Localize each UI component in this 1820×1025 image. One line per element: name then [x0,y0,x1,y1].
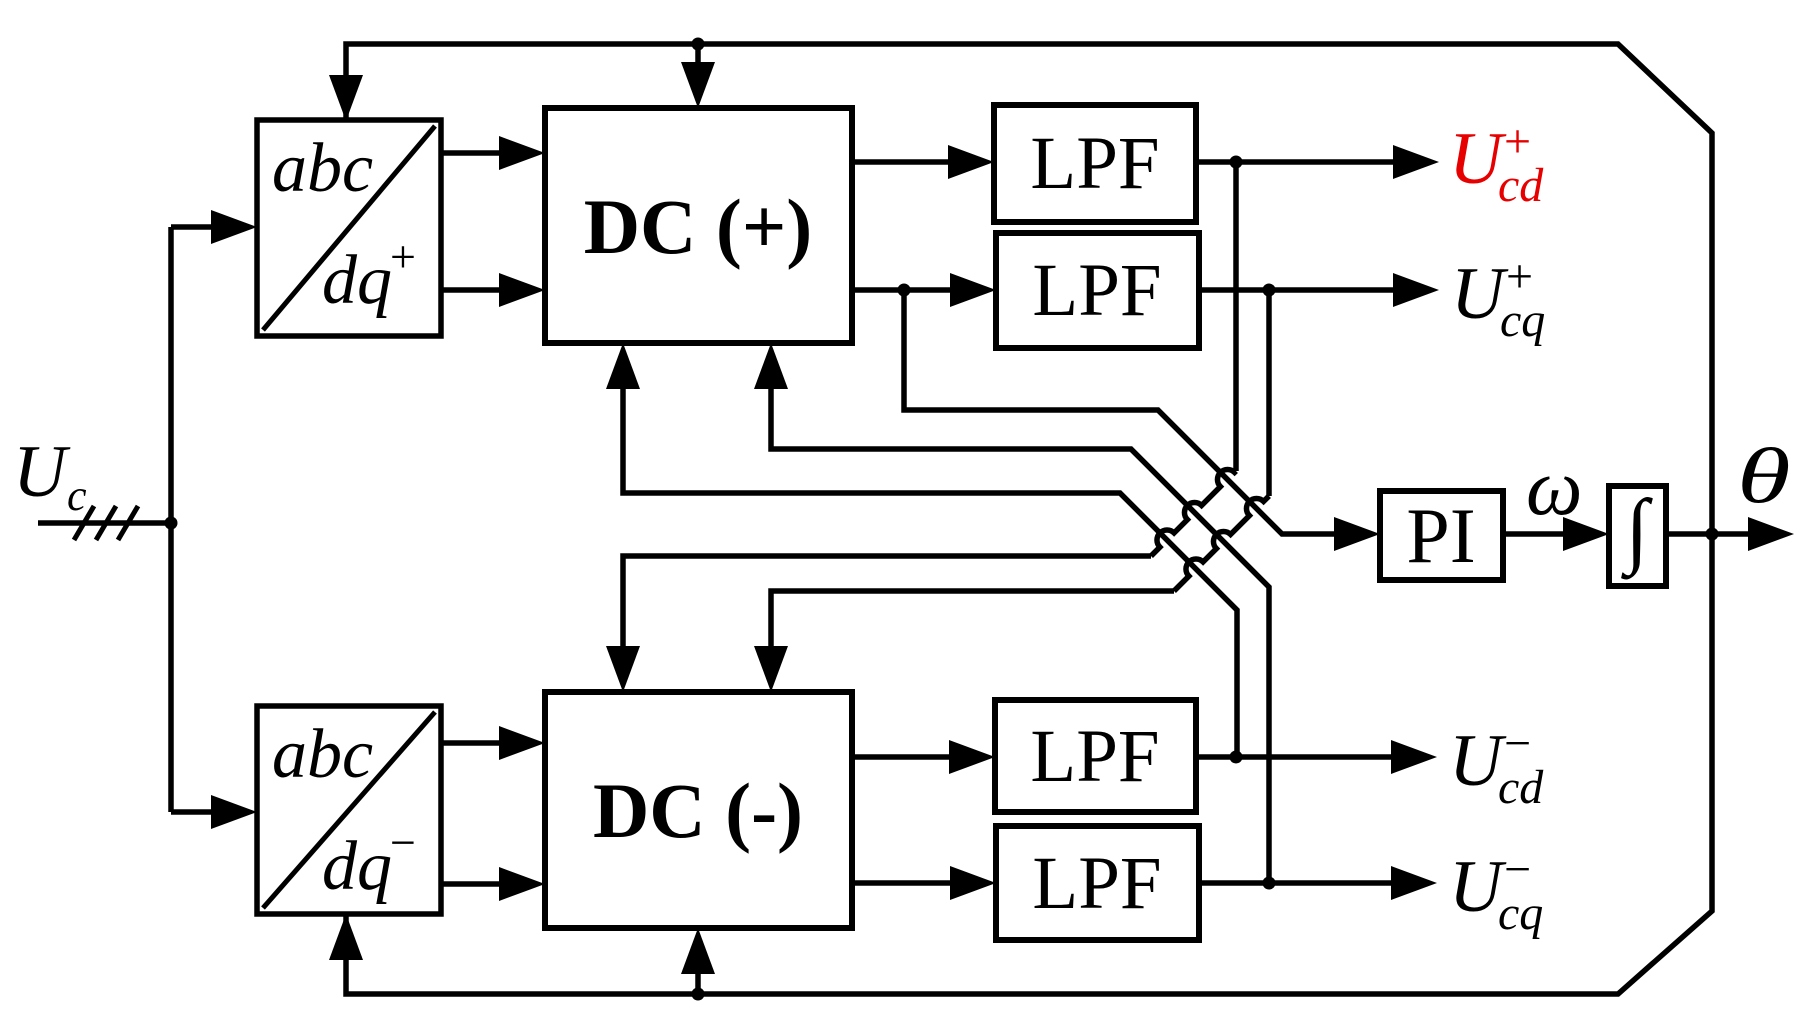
wire LPF to U+cq output [1199,273,1439,307]
wire branch up into DC(-) bottom [681,928,715,994]
wire integrator output theta [1666,517,1794,551]
svg-text:cq: cq [1500,294,1545,347]
wire DC(+) d output to LPF [852,145,994,179]
wire Uc to abc/dq- input [171,795,257,829]
label U-cd output [1449,717,1544,814]
wire abc/dq+ q output to DC(+) [441,273,545,307]
wire abc/dq- d output to DC(-) [441,726,545,760]
svg-text:PI: PI [1406,492,1475,579]
label LPF bottom-d [1030,715,1159,798]
label dq- in abc/dq- [322,817,416,905]
wire Uc to abc/dq+ input [171,210,257,244]
wire LPF to U-cq output [1199,866,1437,900]
wire filtered u-d feedback to DC(+) (via crossing) [606,343,1237,757]
label U-cq output [1449,843,1543,940]
wire LPF to U+cd output [1196,145,1439,179]
wire Uc vertical bus [168,227,174,812]
svg-text:abc: abc [272,130,373,207]
svg-text:DC (-): DC (-) [593,767,803,854]
node Uc input line with three-phase slashes [38,520,171,526]
label DC (+) [584,183,813,270]
label Uc input [13,431,87,520]
block LPF bottom-q [996,826,1199,940]
svg-text:U: U [13,431,71,513]
svg-text:+: + [390,231,416,282]
three-phase slash 3 [118,506,138,540]
three-phase slash 2 [96,506,116,540]
wire branch down into DC(+) top [681,44,715,108]
label PI [1406,492,1475,579]
wire DC(+) q output to LPF [852,273,996,307]
block LPF top-d [994,105,1196,222]
wire theta feedback top: from output junction up and across to abc/dq+ and DC(+) [329,44,1712,531]
block abc/dq+ transform [257,120,441,336]
wire LPF to U-cd output [1196,740,1437,774]
block abc/dq- transform [257,706,441,914]
svg-text:LPF: LPF [1032,249,1161,332]
label integral sign [1620,483,1653,580]
wire u+q raw tap to PI (via crossing) [904,290,1380,551]
node junction on U-cq line [1263,877,1276,890]
node junction on U-cd line [1230,751,1243,764]
block PI regulator [1380,491,1503,580]
wire filtered u-q feedback to DC(+) (via crossing) [754,343,1269,883]
block integrator [1609,486,1666,586]
node junction on U+cq line [1263,284,1276,297]
svg-text:LPF: LPF [1030,122,1159,205]
svg-text:cq: cq [1498,887,1543,940]
node junction on top feedback line above DC(+) [692,38,705,51]
svg-text:cd: cd [1498,761,1544,814]
svg-text:−: − [390,817,416,868]
svg-text:LPF: LPF [1032,842,1161,925]
label dq+ in abc/dq+ [322,231,416,319]
label LPF top-d [1030,122,1159,205]
label abc in abc/dq- [272,716,373,793]
svg-text:θ: θ [1737,432,1791,519]
wire PI to integrator [1503,517,1609,551]
block LPF top-q [996,233,1199,348]
label U+cq output [1451,250,1545,347]
wire theta feedback bottom: from output junction down and across to abc/dq- and DC(-) [329,537,1712,994]
wire abc/dq- q output to DC(-) [441,867,545,901]
svg-text:DC (+): DC (+) [584,183,813,270]
svg-text:abc: abc [272,716,373,793]
block DC (+) decoupling cell [545,108,852,343]
block LPF bottom-d [995,700,1196,812]
svg-text:dq: dq [322,242,392,319]
node junction on bottom feedback line below DC(-) [692,988,705,1001]
label abc in abc/dq+ [272,130,373,207]
svg-text:LPF: LPF [1030,715,1159,798]
node junction theta feedback [1706,528,1719,541]
label U+cd output (red) [1449,115,1544,212]
svg-text:c: c [67,471,87,520]
label LPF top-q [1032,249,1161,332]
label omega [1526,444,1582,532]
label DC (-) [593,767,803,854]
node junction tap u+q raw [898,284,911,297]
wire abc/dq+ d output to DC(+) [441,136,545,170]
label theta [1737,432,1791,519]
svg-text:ω: ω [1526,444,1582,532]
node junction on Uc line [165,517,178,530]
wire filtered u+q feedback to DC(-) (via crossing, hops) [754,290,1269,692]
svg-text:dq: dq [322,828,392,905]
three-phase slash 1 [74,506,94,540]
svg-text:cd: cd [1498,159,1544,212]
label LPF bottom-q [1032,842,1161,925]
wire DC(-) q output to LPF [850,866,996,900]
block DC (-) decoupling cell [545,692,852,928]
wire DC(-) d output to LPF [850,740,995,774]
node junction on U+cd line [1230,156,1243,169]
wire filtered u+d feedback to DC(-) (via crossing, hops) [606,162,1236,692]
